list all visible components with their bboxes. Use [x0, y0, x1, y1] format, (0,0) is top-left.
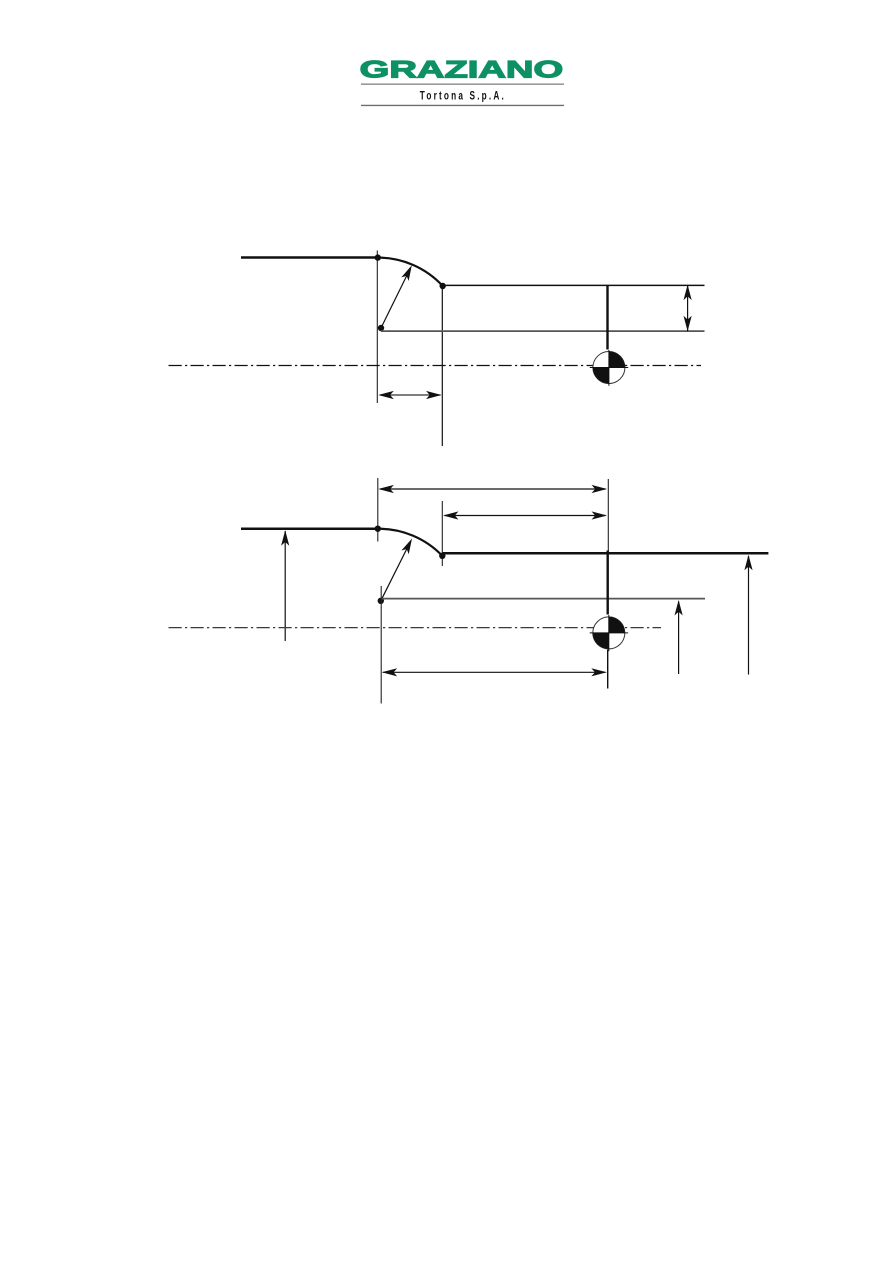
wire: shoulder line left (thick)	[241, 256, 378, 259]
svg-text:Tortona S.p.A.: Tortona S.p.A.	[420, 90, 506, 103]
node Q2	[439, 553, 445, 559]
logo rule lower	[361, 104, 564, 106]
dimension arrow vertical right (double)	[684, 285, 692, 332]
dimension arrow E (right vertical, single head up)	[744, 555, 752, 675]
wire: upper diameter line from P2	[443, 284, 705, 286]
centerline axis 1 (dash-dot)	[169, 365, 702, 367]
centerline axis 2 (dash-dot)	[169, 627, 662, 629]
radius leader arrow Q3 to arc	[381, 537, 416, 601]
extension line top left x378	[377, 478, 379, 542]
node P1	[375, 254, 381, 260]
svg-text:GRAZIANO: GRAZIANO	[360, 56, 564, 83]
wire: lower diameter line from P3 (gray)	[381, 330, 705, 332]
extension line top right x608	[607, 479, 609, 553]
wire: extension line through P2 down	[441, 286, 443, 446]
wire: extension line through Q3 down	[380, 586, 382, 704]
wire: shoulder line left (thick)	[241, 527, 378, 530]
dimension arrow horizontal (double) below axis	[378, 391, 441, 399]
wire: extension line through node P1 down	[376, 251, 378, 404]
node Q3	[378, 598, 384, 604]
dimension arrow B (second, double)	[443, 511, 607, 519]
node P3	[378, 325, 384, 331]
wire: lower diameter line from Q3 (gray)	[381, 598, 705, 600]
wire: gauge vertical (thick) at x607	[607, 551, 609, 615]
radius leader arrow P3 to arc	[381, 263, 415, 328]
dimension arrow A (top, double)	[378, 485, 607, 493]
datum symbol (center of mass) 1	[590, 350, 628, 386]
wire: gauge vertical (thick) at x607	[606, 286, 608, 350]
datum symbol (center of mass) 2	[590, 615, 628, 651]
dimension arrow D (mid vertical, single head up)	[675, 600, 683, 674]
wire: main diameter line (thick) from Q2	[442, 552, 768, 555]
wire: fillet arc Q1-Q2	[378, 529, 443, 556]
node Q1	[375, 526, 381, 532]
node P2	[440, 283, 446, 289]
dimension arrow C (left vertical, single head up)	[281, 530, 289, 641]
extension line x442	[441, 501, 443, 566]
dimension arrow F (bottom, double)	[382, 668, 607, 676]
wire: gauge vertical below datum	[607, 650, 609, 689]
logo rule upper	[361, 83, 564, 85]
wire: fillet arc P1-P2	[378, 258, 443, 286]
